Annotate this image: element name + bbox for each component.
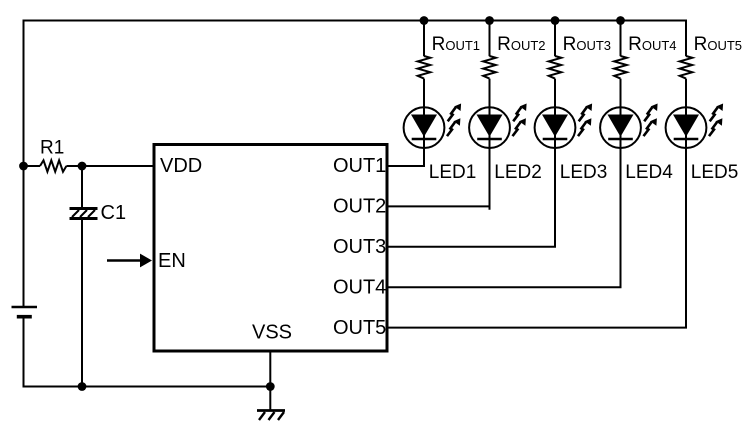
op-amp U1 (LED driver IC body) <box>154 145 387 352</box>
svg-text:ROUT4: ROUT4 <box>628 34 676 55</box>
battery <box>12 307 38 317</box>
svg-text:R1: R1 <box>40 138 64 159</box>
svg-text:ROUT3: ROUT3 <box>563 34 611 55</box>
wire: top supply rail <box>24 20 687 22</box>
node: top rail junction branch 4 <box>616 16 625 25</box>
svg-text:OUT2: OUT2 <box>333 196 386 218</box>
wire <box>423 79 425 166</box>
svg-text:OUT5: OUT5 <box>333 317 386 339</box>
wire <box>620 21 622 57</box>
resistor ROUT1 <box>418 56 431 79</box>
wire <box>685 20 687 57</box>
capacitor C1 <box>70 209 98 219</box>
node: top rail junction branch 2 <box>485 16 494 25</box>
wire OUT2 <box>389 205 491 207</box>
node: junction C1 / bottom rail <box>78 382 87 391</box>
node: junction VSS / bottom rail <box>266 382 275 391</box>
svg-text:ROUT1: ROUT1 <box>432 34 480 55</box>
enable input arrow <box>107 254 152 268</box>
svg-text:LED5: LED5 <box>691 162 739 183</box>
LED LED1 <box>404 104 462 149</box>
resistor ROUT5 <box>680 56 693 79</box>
wire <box>685 79 687 328</box>
wire OUT3 <box>389 246 557 248</box>
wire OUT5 <box>389 327 688 329</box>
svg-text:ROUT2: ROUT2 <box>497 34 545 55</box>
svg-text:OUT3: OUT3 <box>333 236 386 258</box>
wire <box>66 165 153 167</box>
svg-text:LED4: LED4 <box>625 162 673 183</box>
node: top rail junction branch 1 <box>420 16 429 25</box>
wire OUT4 <box>389 286 622 288</box>
wire <box>24 165 41 167</box>
wire <box>81 166 83 208</box>
node: junction R1 / C1 <box>78 162 87 171</box>
resistor ROUT3 <box>549 56 562 79</box>
LED LED3 <box>535 104 593 149</box>
svg-text:EN: EN <box>158 250 186 272</box>
wire <box>489 79 491 210</box>
svg-text:C1: C1 <box>101 202 127 224</box>
wire <box>489 21 491 57</box>
wire: battery to bottom rail <box>24 317 271 387</box>
ground <box>257 411 285 421</box>
svg-text:LED3: LED3 <box>560 162 608 183</box>
LED LED5 <box>666 104 724 149</box>
wire <box>620 79 622 288</box>
svg-text:ROUT5: ROUT5 <box>694 34 742 55</box>
resistor ROUT4 <box>614 56 627 79</box>
node: junction left rail / R1 <box>19 162 28 171</box>
resistor R1 <box>40 160 66 171</box>
LED LED2 <box>469 104 526 149</box>
resistor ROUT2 <box>483 56 496 79</box>
wire <box>81 220 83 387</box>
wire <box>554 21 556 57</box>
wire: VSS to ground <box>269 353 271 411</box>
svg-text:VDD: VDD <box>160 155 202 177</box>
node: top rail junction branch 3 <box>551 16 560 25</box>
svg-text:OUT4: OUT4 <box>333 276 386 298</box>
wire <box>554 79 556 247</box>
svg-text:LED2: LED2 <box>494 162 542 183</box>
wire: left vertical from top rail to battery <box>23 20 25 307</box>
svg-text:OUT1: OUT1 <box>333 155 386 177</box>
svg-text:LED1: LED1 <box>429 162 477 183</box>
wire OUT1 <box>389 165 426 167</box>
LED LED4 <box>600 104 658 149</box>
svg-text:VSS: VSS <box>252 322 292 344</box>
wire <box>423 21 425 57</box>
